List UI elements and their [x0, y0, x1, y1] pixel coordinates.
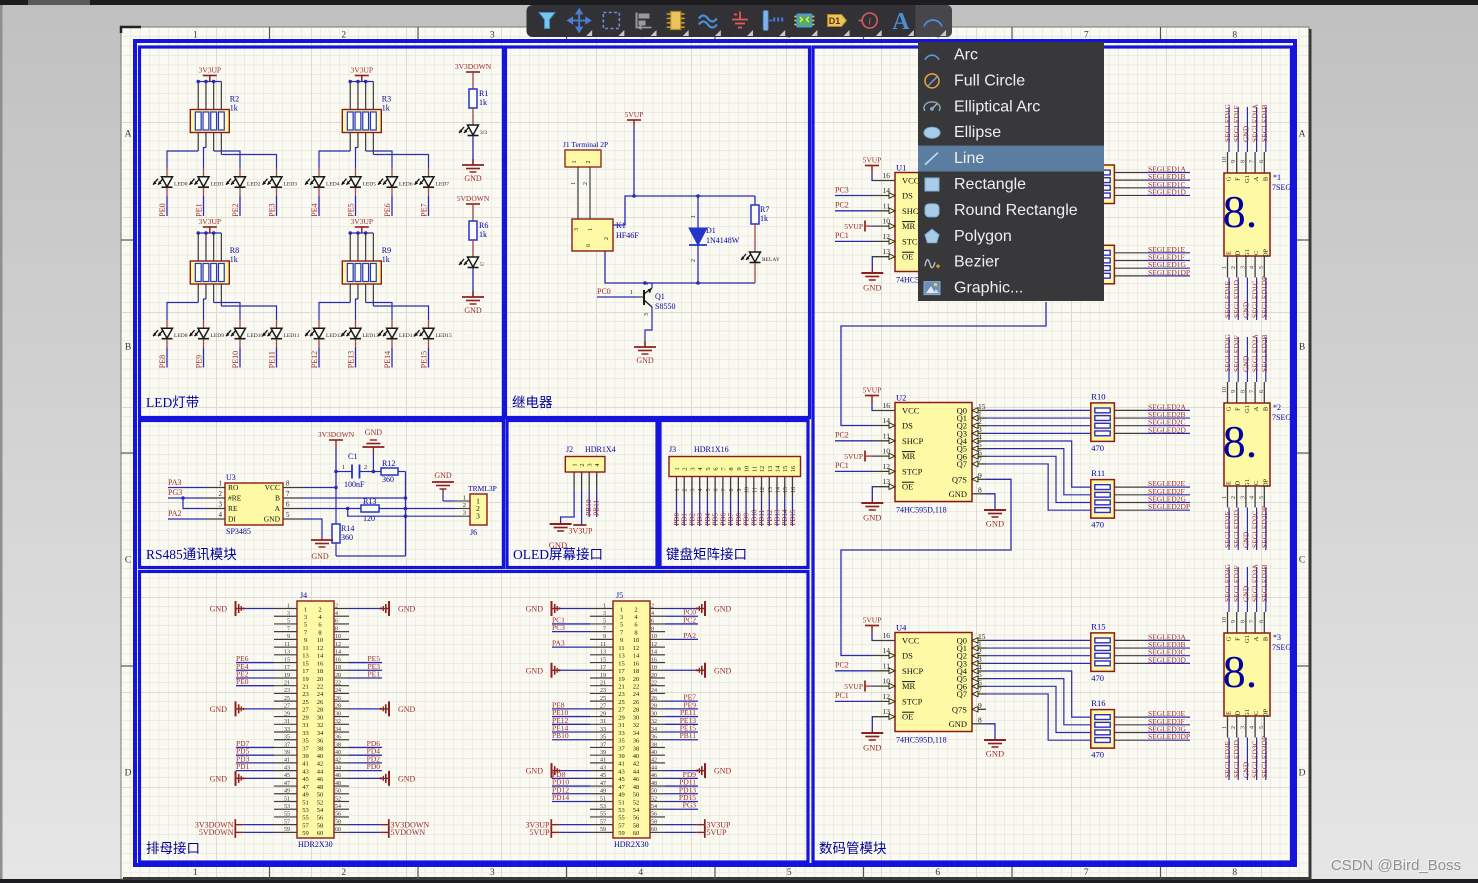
svg-text:32: 32: [651, 719, 657, 725]
svg-text:SEGLED2E: SEGLED2E: [1223, 511, 1232, 548]
pin 10 of 7SEG *1: [1227, 152, 1229, 173]
svg-text:16: 16: [633, 660, 640, 667]
pin 6 of 7SEG *1: [1263, 152, 1265, 173]
pin 7 of 7SEG *2: [1254, 382, 1256, 403]
net label SEGLED2E (rotated): [1228, 508, 1230, 551]
svg-text:RELAY: RELAY: [762, 257, 780, 263]
wire: [318, 188, 320, 196]
svg-text:16: 16: [790, 465, 797, 472]
svg-text:MR: MR: [902, 681, 916, 691]
pin row 59/60 of J4: [274, 831, 297, 833]
IC U1 74HC595D: [873, 163, 986, 285]
ground: [696, 663, 705, 678]
svg-text:LED10: LED10: [247, 333, 263, 339]
wire SHCP: [835, 210, 873, 212]
power 5VUP row 59 J5: [559, 831, 590, 833]
pin row 29/30 of J4: [274, 716, 297, 718]
svg-text:G1: G1: [1244, 405, 1251, 413]
svg-text:GND: GND: [714, 666, 732, 675]
wire: [355, 188, 357, 196]
net label SEGLED3A (rotated): [1256, 567, 1258, 612]
wire GND row 27 J4: [244, 708, 274, 710]
svg-text:2: 2: [1231, 726, 1237, 729]
svg-text:S8550: S8550: [655, 302, 675, 311]
svg-text:51: 51: [618, 799, 625, 806]
svg-text:25: 25: [618, 699, 625, 706]
wire to SEGLED2B: [1114, 417, 1145, 419]
power flag 5VUP: [625, 110, 644, 126]
svg-text:VCC: VCC: [265, 483, 280, 492]
svg-text:8: 8: [978, 485, 982, 494]
svg-text:PA2: PA2: [683, 631, 696, 640]
svg-text:PE6: PE6: [383, 203, 392, 216]
module box: LED strip (LED灯带): [140, 47, 504, 418]
svg-text:360: 360: [341, 533, 353, 542]
svg-text:31: 31: [618, 722, 625, 729]
svg-text:E: E: [1226, 251, 1233, 255]
svg-text:11: 11: [600, 642, 606, 648]
wire: [365, 133, 367, 152]
svg-text:6: 6: [935, 868, 940, 878]
svg-text:DI: DI: [228, 515, 236, 524]
wire to SEGLED2A: [1114, 409, 1145, 411]
wire to SEGLED2F: [1114, 494, 1145, 496]
svg-text:PE13: PE13: [347, 351, 356, 368]
wires Q4-Q7 staircase to R16: [986, 671, 1091, 717]
wire to SEGLED3B: [1114, 647, 1145, 649]
wire GND pin5: [303, 519, 322, 538]
pin row 25/26 of J5: [590, 700, 613, 702]
menu icon elliptical arc: [924, 102, 940, 111]
svg-text:GND: GND: [636, 356, 654, 365]
ground: [861, 503, 883, 523]
svg-text:15: 15: [783, 487, 789, 493]
net label PD5 row 39 J4: [236, 754, 274, 756]
pin 3 of 7SEG *1: [1245, 256, 1247, 278]
svg-text:40: 40: [651, 750, 657, 756]
svg-text:470: 470: [1091, 750, 1104, 760]
wire GND row 44 J5: [665, 770, 696, 772]
svg-text:Line: Line: [954, 150, 984, 167]
svg-text:PG3: PG3: [168, 488, 182, 497]
svg-text:12: 12: [335, 642, 341, 648]
svg-text:PC1: PC1: [835, 231, 849, 240]
svg-text:8: 8: [729, 489, 735, 492]
svg-text:59: 59: [600, 827, 606, 833]
pin 9 of 7SEG *2: [1236, 382, 1238, 403]
svg-text:8.: 8.: [1223, 416, 1258, 467]
wire GND row 28 J4: [349, 708, 380, 710]
wire: [276, 339, 278, 347]
svg-text:51: 51: [302, 799, 309, 806]
svg-text:GND: GND: [949, 489, 967, 499]
connector J5 HDR2X30: [613, 591, 650, 849]
wire to SEGLED2C: [1114, 425, 1145, 427]
svg-text:5VUP: 5VUP: [844, 222, 863, 231]
svg-text:A: A: [1253, 176, 1260, 181]
svg-text:26: 26: [317, 699, 324, 706]
svg-text:Graphic...: Graphic...: [954, 280, 1023, 297]
svg-text:SEGLED2D: SEGLED2D: [1148, 425, 1186, 434]
svg-text:16: 16: [317, 660, 324, 667]
svg-text:470: 470: [1091, 520, 1104, 530]
wire to SEGLED3DP: [1114, 739, 1145, 741]
resistor network R9 470: [1091, 234, 1115, 295]
svg-text:STCP: STCP: [902, 696, 923, 706]
svg-text:8: 8: [335, 626, 338, 632]
svg-text:39: 39: [284, 750, 290, 756]
wire: [472, 136, 474, 165]
pin 9 of 7SEG *1: [1236, 152, 1238, 173]
svg-text:2: 2: [586, 161, 592, 164]
svg-text:4: 4: [638, 868, 643, 878]
svg-text:D: D: [125, 769, 132, 779]
LED LED2: [239, 169, 241, 177]
wire power bus R2: [198, 81, 221, 83]
svg-text:26: 26: [651, 696, 657, 702]
svg-text:HDR2X30: HDR2X30: [298, 840, 333, 849]
svg-text:SEGLED2A: SEGLED2A: [1251, 334, 1260, 372]
pin 4 of 7SEG *1: [1254, 256, 1256, 278]
svg-text:PE10: PE10: [231, 351, 240, 368]
ground: [634, 341, 656, 365]
svg-text:R10: R10: [1091, 391, 1105, 401]
svg-text:3: 3: [1240, 726, 1246, 729]
wire GND row 17 J5: [560, 669, 590, 671]
pin row 33/34 of J4: [274, 731, 297, 733]
LED LED5: [355, 169, 357, 177]
svg-text:29: 29: [284, 711, 290, 717]
svg-text:13: 13: [768, 487, 774, 493]
pin row 1/2 of J4: [274, 608, 297, 610]
svg-text:60: 60: [633, 830, 640, 837]
svg-text:11: 11: [284, 642, 290, 648]
svg-text:2: 2: [604, 237, 610, 240]
svg-text:E: E: [1226, 481, 1233, 485]
wire GND row 1 J4: [244, 608, 274, 610]
wire: [220, 233, 222, 261]
wire: [213, 133, 215, 152]
pin row 43/44 of J5: [590, 770, 613, 772]
ground: [984, 740, 1006, 759]
svg-text:43: 43: [618, 768, 625, 775]
net label SEGLED1C (rotated): [1256, 278, 1258, 321]
net label PB11 row 36 J5: [665, 739, 698, 741]
net label PD4 row 40 J4: [349, 754, 382, 756]
svg-text:51: 51: [284, 796, 290, 802]
pin row 51/52 of J4: [274, 801, 297, 803]
pin 1 of 7SEG *3: [1227, 716, 1229, 738]
transistor Q1 S8550: [644, 282, 675, 316]
svg-text:Q7S: Q7S: [952, 474, 967, 484]
svg-text:14: 14: [775, 487, 781, 493]
svg-text:13: 13: [618, 653, 625, 660]
svg-text:LED1: LED1: [211, 182, 225, 188]
ground: [984, 280, 1006, 299]
svg-text:G1: G1: [1244, 175, 1251, 183]
svg-text:5VUP: 5VUP: [863, 386, 882, 395]
net label SEGLED3F (rotated): [1237, 567, 1239, 612]
svg-text:3V3UP: 3V3UP: [351, 217, 374, 226]
svg-text:*3: *3: [1273, 633, 1281, 642]
ground: [552, 663, 561, 678]
wire: [197, 133, 199, 152]
wire GND pin to ground: [986, 494, 995, 510]
svg-text:GND: GND: [526, 666, 544, 675]
svg-text:A: A: [125, 130, 132, 140]
svg-text:SEGLED2C: SEGLED2C: [1251, 511, 1260, 549]
wire to SEGLED3G: [1114, 732, 1145, 734]
net label PE3 row 18 J4: [349, 669, 382, 671]
net label PD10 row 47 J5: [552, 785, 590, 787]
wire: [166, 339, 168, 347]
svg-text:GND: GND: [1241, 125, 1250, 142]
wire GND row 18 J5: [665, 669, 696, 671]
pin row 11/12 of J5: [590, 646, 613, 648]
svg-text:17: 17: [302, 668, 309, 675]
svg-text:HF46F: HF46F: [616, 231, 639, 240]
svg-text:PE8: PE8: [158, 355, 167, 368]
svg-text:34: 34: [633, 730, 640, 737]
svg-text:3V3UP: 3V3UP: [568, 527, 593, 536]
svg-text:54: 54: [651, 804, 657, 810]
wire: [349, 284, 351, 303]
wire: [349, 233, 351, 261]
net label PC0 row 4 J5: [665, 615, 698, 617]
svg-text:GND: GND: [464, 174, 482, 183]
svg-text:20: 20: [651, 673, 657, 679]
net label SEGLED1E (rotated): [1228, 278, 1230, 321]
menu icon arc: [925, 55, 939, 60]
svg-text:1k: 1k: [230, 255, 238, 264]
svg-text:R3: R3: [382, 95, 391, 104]
svg-text:12: 12: [651, 642, 657, 648]
svg-text:50: 50: [335, 789, 341, 795]
svg-text:5: 5: [1259, 496, 1265, 499]
svg-text:G: G: [1226, 636, 1233, 641]
svg-text:3: 3: [603, 611, 606, 617]
pin 5 of 7SEG *3: [1263, 716, 1265, 738]
svg-text:4: 4: [651, 611, 654, 617]
toolbar icon: ground: [732, 12, 748, 28]
svg-text:19: 19: [302, 676, 309, 683]
svg-text:120: 120: [363, 514, 375, 523]
svg-text:29: 29: [600, 711, 606, 717]
pin row 45/46 of J5: [590, 777, 613, 779]
pin row 53/54 of J4: [274, 808, 297, 810]
svg-text:J6: J6: [470, 528, 477, 537]
pin row 51/52 of J5: [590, 801, 613, 803]
svg-text:LED灯带: LED灯带: [146, 395, 199, 410]
svg-text:1: 1: [691, 215, 697, 218]
svg-text:5: 5: [304, 622, 307, 629]
wire: [220, 82, 222, 110]
svg-text:GND: GND: [210, 605, 228, 614]
svg-text:60: 60: [317, 830, 324, 837]
svg-text:B: B: [275, 494, 280, 503]
svg-text:GND: GND: [986, 749, 1004, 759]
wire J2 pin1 to ground: [561, 490, 575, 524]
LED LED8: [166, 320, 168, 328]
svg-text:TRML3P: TRML3P: [468, 484, 497, 493]
svg-text:2: 2: [579, 463, 586, 466]
svg-text:5VUP: 5VUP: [863, 616, 882, 625]
svg-text:58: 58: [633, 822, 640, 829]
svg-text:2: 2: [1231, 266, 1237, 269]
svg-text:SEGLED1B: SEGLED1B: [1260, 105, 1269, 143]
svg-text:17: 17: [618, 668, 625, 675]
wire to SEGLED1F: [1114, 260, 1145, 262]
svg-text:GND: GND: [1241, 301, 1250, 318]
net label PE14 row 33 J5: [552, 731, 590, 733]
svg-text:SEGLED3C: SEGLED3C: [1251, 741, 1260, 779]
svg-text:37: 37: [618, 745, 625, 752]
svg-text:HDR1X4: HDR1X4: [585, 445, 616, 454]
svg-text:C: C: [1253, 711, 1260, 715]
svg-text:12: 12: [633, 645, 640, 652]
wire: [472, 108, 474, 125]
svg-text:25: 25: [284, 696, 290, 702]
pin row 21/22 of J4: [274, 685, 297, 687]
resistor network R11 470: [1091, 468, 1115, 529]
wires Q0-Q3 to R8: [986, 172, 1091, 174]
svg-text:C: C: [1253, 251, 1260, 255]
svg-text:5VUP: 5VUP: [863, 156, 882, 165]
cascade wire U2.Q7S to U4.DS: [841, 479, 1011, 655]
svg-text:5VUP: 5VUP: [844, 452, 863, 461]
svg-text:GND: GND: [949, 719, 967, 729]
svg-text:7: 7: [1250, 160, 1256, 163]
LED LED12: [318, 320, 320, 328]
net label PD15 row 52 J5: [665, 801, 698, 803]
svg-text:31: 31: [600, 719, 606, 725]
svg-text:GND: GND: [398, 605, 416, 614]
svg-text:8.: 8.: [1223, 646, 1258, 697]
net label SEGLED1F (rotated): [1237, 107, 1239, 152]
pin row 9/10 of J5: [590, 638, 613, 640]
svg-text:SEGLED2F: SEGLED2F: [1232, 335, 1241, 372]
svg-text:37: 37: [302, 745, 309, 752]
svg-text:54: 54: [633, 807, 640, 814]
pin 1 of 7SEG *2: [1227, 486, 1229, 508]
svg-text:8: 8: [1240, 390, 1246, 393]
svg-text:8: 8: [634, 629, 637, 636]
svg-text:U3: U3: [226, 473, 236, 482]
net label SEGLED2A (rotated): [1256, 337, 1258, 382]
svg-text:25: 25: [302, 699, 309, 706]
svg-text:PD0: PD0: [367, 762, 381, 771]
pin row 41/42 of J4: [274, 762, 297, 764]
ground: [236, 701, 245, 716]
svg-text:GND: GND: [863, 283, 881, 293]
net label PD7 row 37 J4: [236, 746, 274, 748]
svg-text:35: 35: [302, 738, 309, 745]
svg-text:GND: GND: [863, 743, 881, 753]
svg-text:PC2: PC2: [835, 201, 849, 210]
svg-text:1: 1: [1222, 266, 1228, 269]
svg-text:U1: U1: [896, 163, 906, 173]
wire: [205, 284, 207, 299]
svg-text:GND: GND: [986, 519, 1004, 529]
svg-text:9: 9: [1231, 620, 1237, 623]
pin row 7/8 of J4: [274, 631, 297, 633]
wire to SEGLED3D: [1114, 662, 1145, 664]
pin row 37/38 of J4: [274, 746, 297, 748]
wire: [220, 284, 222, 306]
svg-text:3/3: 3/3: [480, 130, 487, 136]
wire GND pin to ground: [986, 264, 995, 280]
svg-text:1: 1: [572, 161, 578, 164]
svg-text:3: 3: [476, 512, 480, 521]
svg-text:13: 13: [284, 650, 290, 656]
svg-text:470: 470: [1091, 673, 1104, 683]
svg-text:DP: DP: [1262, 708, 1269, 717]
svg-text:38: 38: [651, 742, 657, 748]
module box: 7-seg module (数码管模块): [813, 47, 1292, 862]
power flag 5VUP: [863, 386, 882, 404]
svg-text:Q7S: Q7S: [952, 704, 967, 714]
net label PE0 row 21 J4: [236, 685, 274, 687]
svg-text:13: 13: [767, 466, 774, 473]
svg-text:D: D: [1299, 769, 1306, 779]
wire: [372, 284, 374, 306]
svg-text:1: 1: [1222, 496, 1228, 499]
svg-text:GND: GND: [434, 471, 452, 480]
svg-text:56: 56: [651, 812, 657, 818]
svg-text:37: 37: [600, 742, 606, 748]
wire OE to ground: [871, 487, 874, 500]
svg-text:PE12: PE12: [310, 351, 319, 368]
toolbar icon: crosshair: [568, 10, 590, 32]
svg-text:44: 44: [651, 765, 657, 771]
net label GND (rotated): [1246, 278, 1248, 321]
power flag 5VUP: [863, 156, 882, 174]
svg-text:J5: J5: [616, 591, 623, 600]
resistor R13 120: [361, 505, 379, 512]
resistor pack R3: [342, 95, 391, 133]
svg-text:4: 4: [335, 611, 338, 617]
svg-text:2: 2: [364, 464, 367, 471]
resistor network R8 470: [1091, 154, 1115, 216]
svg-text:C1: C1: [348, 452, 357, 461]
resistor network R10 470: [1091, 391, 1115, 453]
wire J2 pin4 PB11: [596, 490, 598, 517]
pin row 1/2 of J5: [590, 608, 613, 610]
svg-text:PB11: PB11: [680, 731, 697, 740]
svg-text:360: 360: [382, 475, 394, 484]
svg-text:G1: G1: [1244, 709, 1251, 717]
sheet shadow edges: [1309, 29, 1312, 879]
floating toolbar: [527, 5, 953, 37]
pin row 49/50 of J4: [274, 793, 297, 795]
net label PC2 row 6 J5: [665, 623, 698, 625]
svg-text:49: 49: [600, 789, 606, 795]
power 5VUP row 60 J5: [665, 831, 696, 833]
svg-text:26: 26: [335, 696, 341, 702]
pin row 11/12 of J4: [274, 646, 297, 648]
svg-text:RE: RE: [228, 504, 238, 513]
net label PD3 row 41 J4: [236, 762, 274, 764]
svg-text:OE: OE: [902, 712, 913, 722]
svg-text:1: 1: [571, 182, 577, 185]
svg-text:43: 43: [302, 768, 309, 775]
wire: [428, 339, 430, 347]
svg-text:1k: 1k: [230, 104, 238, 113]
svg-text:6: 6: [1259, 620, 1265, 623]
svg-text:52: 52: [651, 796, 657, 802]
svg-text:13: 13: [302, 653, 309, 660]
svg-text:G1: G1: [1244, 479, 1251, 487]
